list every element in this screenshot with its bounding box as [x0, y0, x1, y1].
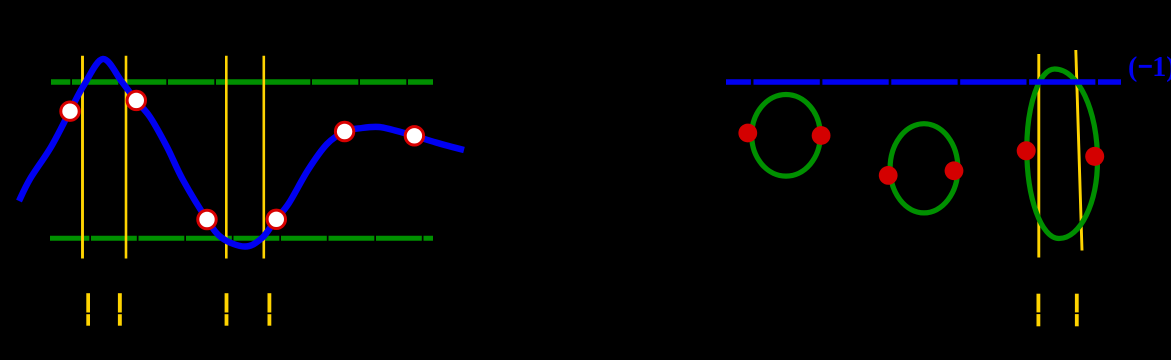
- yellow axis tick t4, left figure: [268, 293, 272, 326]
- blue dashed horizontal line, right figure: [726, 79, 1121, 85]
- open point P4 on curve: [267, 210, 285, 228]
- yellow vertical line x=c1, right figure: [1037, 54, 1040, 258]
- yellow vertical line x=a1, left figure: [81, 56, 84, 259]
- red point D4 on E2: [945, 161, 964, 180]
- open point P3 on curve: [198, 210, 216, 228]
- open point P6 on curve: [405, 127, 423, 145]
- red point D6 on E3: [1085, 147, 1104, 166]
- open point P2 on curve: [127, 91, 145, 109]
- red point D3 on E2: [879, 166, 898, 185]
- yellow axis tick t3, left figure: [225, 293, 229, 326]
- yellow axis tick u1, right figure: [1037, 294, 1041, 327]
- blue curve y=f(x), left figure: [19, 59, 464, 247]
- yellow axis tick t1, left figure: [86, 293, 90, 326]
- red point D1 on E1: [738, 124, 757, 143]
- open point P1 on curve: [61, 102, 79, 120]
- green ellipse E1, right figure: [752, 95, 821, 177]
- svg-text:1): 1): [1152, 52, 1171, 83]
- black x-axis over ticks, right figure: [1000, 312, 1130, 314]
- green dashed horizontal line y=m (bottom bound), left figure: [50, 236, 433, 241]
- yellow axis tick u2, right figure: [1075, 294, 1079, 327]
- open point P5 on curve: [335, 122, 353, 140]
- yellow axis tick t2, left figure: [118, 293, 122, 326]
- red point D5 on E3: [1017, 141, 1036, 160]
- yellow vertical line x=b1, left figure: [125, 56, 128, 259]
- green dashed horizontal line y=M (top bound), left figure: [51, 79, 433, 84]
- green ellipse E2, right figure: [890, 124, 958, 213]
- red point D2 on E1: [812, 126, 831, 145]
- yellow vertical line x=b2, left figure: [262, 56, 265, 259]
- yellow vertical line x=a2, left figure: [225, 56, 228, 259]
- yellow vertical line x=c2 (slightly slanted), right figure: [1076, 50, 1082, 251]
- svg-text:(: (: [1128, 52, 1137, 83]
- black x-axis over ticks, left figure: [40, 313, 290, 315]
- green ellipse E3 (tall), right figure: [1027, 69, 1098, 239]
